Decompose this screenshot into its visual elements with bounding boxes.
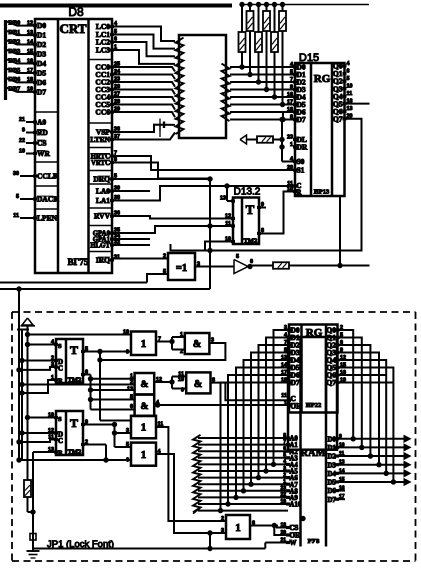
svg-text:5: 5 bbox=[283, 453, 286, 459]
svg-text:T: T bbox=[70, 416, 78, 430]
svg-text:1: 1 bbox=[284, 400, 287, 406]
svg-text:5: 5 bbox=[126, 442, 129, 448]
svg-text:20: 20 bbox=[280, 530, 286, 536]
svg-text:9: 9 bbox=[261, 202, 264, 208]
svg-text:D13.2: D13.2 bbox=[234, 187, 261, 198]
svg-text:5: 5 bbox=[85, 346, 88, 352]
svg-text:10: 10 bbox=[347, 83, 353, 89]
svg-text:2: 2 bbox=[180, 349, 183, 355]
svg-text:2: 2 bbox=[51, 355, 54, 361]
svg-text:W: W bbox=[290, 539, 297, 547]
svg-text:Q7: Q7 bbox=[326, 378, 336, 387]
svg-text:7: 7 bbox=[283, 439, 286, 445]
svg-text:РУ8: РУ8 bbox=[308, 538, 321, 545]
svg-text:12: 12 bbox=[156, 377, 162, 383]
svg-text:17: 17 bbox=[27, 68, 33, 74]
svg-text:ТМ2: ТМ2 bbox=[68, 449, 82, 456]
svg-text:&: & bbox=[141, 380, 149, 390]
svg-text:6: 6 bbox=[252, 520, 255, 526]
svg-text:ТМ2: ТМ2 bbox=[244, 238, 258, 245]
svg-text:R: R bbox=[297, 189, 302, 196]
svg-text:5: 5 bbox=[16, 194, 19, 200]
svg-text:3: 3 bbox=[197, 261, 200, 267]
svg-text:&: & bbox=[193, 339, 201, 350]
svg-text:6: 6 bbox=[250, 259, 253, 265]
svg-text:D3: D3 bbox=[37, 50, 46, 59]
svg-text:11: 11 bbox=[281, 393, 287, 399]
svg-text:D4: D4 bbox=[37, 59, 46, 68]
svg-text:13: 13 bbox=[347, 106, 353, 112]
svg-text:10: 10 bbox=[178, 377, 184, 383]
svg-text:11: 11 bbox=[13, 213, 19, 219]
svg-text:A10: A10 bbox=[290, 502, 302, 509]
svg-text:5: 5 bbox=[130, 394, 133, 400]
svg-text:D8: D8 bbox=[68, 5, 84, 19]
svg-text:3: 3 bbox=[126, 428, 129, 434]
svg-text:23: 23 bbox=[280, 486, 286, 492]
svg-text:D5: D5 bbox=[37, 69, 46, 78]
svg-text:21: 21 bbox=[19, 117, 25, 123]
svg-text:DB5: DB5 bbox=[9, 67, 21, 74]
svg-text:S1: S1 bbox=[297, 166, 305, 175]
svg-text:C: C bbox=[58, 365, 63, 373]
svg-text:9: 9 bbox=[290, 84, 293, 90]
svg-text:9: 9 bbox=[85, 419, 88, 425]
svg-text:1: 1 bbox=[141, 338, 147, 350]
svg-text:6: 6 bbox=[85, 369, 88, 375]
svg-text:C: C bbox=[58, 437, 63, 445]
svg-text:22: 22 bbox=[19, 138, 25, 144]
svg-text:6: 6 bbox=[130, 404, 133, 410]
svg-text:D7: D7 bbox=[291, 378, 300, 387]
svg-text:9: 9 bbox=[126, 350, 129, 356]
svg-text:ИР13: ИР13 bbox=[314, 189, 330, 196]
svg-text:&: & bbox=[141, 402, 149, 412]
svg-text:8: 8 bbox=[290, 114, 293, 120]
svg-text:1: 1 bbox=[51, 375, 54, 381]
svg-text:D1: D1 bbox=[37, 31, 46, 40]
svg-text:12: 12 bbox=[27, 20, 33, 26]
svg-text:9: 9 bbox=[22, 127, 25, 133]
svg-text:D7: D7 bbox=[37, 87, 46, 96]
svg-text:RG: RG bbox=[314, 73, 331, 85]
svg-text:&: & bbox=[194, 379, 202, 390]
svg-text:18: 18 bbox=[287, 107, 293, 113]
svg-text:LTEN: LTEN bbox=[90, 135, 110, 144]
svg-text:2: 2 bbox=[221, 516, 224, 522]
svg-text:D7: D7 bbox=[297, 115, 306, 124]
svg-text:7: 7 bbox=[158, 336, 161, 342]
svg-text:D6: D6 bbox=[37, 78, 46, 87]
svg-text:R: R bbox=[58, 378, 63, 385]
svg-text:HLGT: HLGT bbox=[90, 242, 110, 249]
svg-text:CRT: CRT bbox=[60, 21, 87, 36]
svg-text:3: 3 bbox=[221, 528, 224, 534]
svg-text:5: 5 bbox=[290, 69, 293, 75]
svg-text:30: 30 bbox=[13, 171, 19, 177]
svg-text:DB1: DB1 bbox=[9, 29, 21, 36]
svg-text:VRTC: VRTC bbox=[91, 160, 110, 167]
svg-text:18: 18 bbox=[27, 77, 33, 83]
svg-text:DB3: DB3 bbox=[9, 48, 21, 55]
svg-text:4: 4 bbox=[51, 339, 54, 345]
svg-text:4: 4 bbox=[283, 459, 286, 465]
svg-text:D2: D2 bbox=[37, 40, 46, 49]
svg-text:18: 18 bbox=[280, 522, 286, 528]
svg-text:7: 7 bbox=[290, 77, 293, 83]
svg-text:DB0: DB0 bbox=[9, 19, 21, 26]
svg-text:12: 12 bbox=[48, 428, 54, 434]
svg-text:DB7: DB7 bbox=[9, 86, 21, 93]
svg-text:T: T bbox=[246, 202, 255, 217]
svg-text:14: 14 bbox=[27, 39, 33, 45]
svg-text:LC3: LC3 bbox=[96, 46, 110, 55]
svg-text:A0: A0 bbox=[37, 118, 46, 127]
svg-text:3: 3 bbox=[283, 466, 286, 472]
svg-text:3: 3 bbox=[51, 362, 54, 368]
svg-text:12: 12 bbox=[225, 213, 231, 219]
svg-text:8: 8 bbox=[212, 377, 215, 383]
svg-text:10: 10 bbox=[19, 148, 25, 154]
svg-text:2: 2 bbox=[85, 439, 88, 445]
svg-text:10: 10 bbox=[225, 236, 231, 242]
svg-text:4: 4 bbox=[156, 400, 159, 406]
svg-text:2: 2 bbox=[163, 253, 166, 259]
svg-text:5: 5 bbox=[163, 269, 166, 275]
svg-text:CC6: CC6 bbox=[95, 108, 110, 117]
svg-text:ИР22: ИР22 bbox=[306, 402, 322, 409]
svg-text:LA1: LA1 bbox=[96, 196, 110, 205]
svg-text:DB4: DB4 bbox=[9, 57, 21, 64]
svg-text:1: 1 bbox=[235, 522, 241, 534]
svg-text:16: 16 bbox=[287, 92, 293, 98]
svg-text:19: 19 bbox=[27, 87, 33, 93]
svg-text:S: S bbox=[58, 343, 62, 350]
svg-text:13: 13 bbox=[27, 30, 33, 36]
svg-text:DR: DR bbox=[297, 143, 308, 152]
svg-text:LA0: LA0 bbox=[96, 187, 110, 196]
svg-text:17: 17 bbox=[287, 99, 293, 105]
svg-text:11: 11 bbox=[347, 91, 353, 97]
svg-text:8: 8 bbox=[283, 433, 286, 439]
svg-text:LPEN: LPEN bbox=[37, 214, 58, 223]
svg-text:15: 15 bbox=[27, 49, 33, 55]
svg-text:19: 19 bbox=[280, 499, 286, 505]
svg-text:1: 1 bbox=[180, 332, 183, 338]
svg-text:23: 23 bbox=[287, 134, 293, 140]
svg-text:5: 5 bbox=[236, 254, 239, 260]
svg-text:13: 13 bbox=[127, 387, 133, 393]
svg-text:13: 13 bbox=[48, 447, 54, 453]
svg-text:1: 1 bbox=[141, 449, 147, 461]
svg-text:Q7: Q7 bbox=[333, 114, 343, 123]
svg-text:9: 9 bbox=[181, 387, 184, 393]
svg-text:6: 6 bbox=[283, 446, 286, 452]
svg-text:11: 11 bbox=[225, 221, 231, 227]
svg-text:=1: =1 bbox=[176, 263, 187, 274]
svg-text:2: 2 bbox=[283, 472, 286, 478]
svg-text:RAM: RAM bbox=[300, 448, 325, 459]
svg-text:1: 1 bbox=[283, 479, 286, 485]
svg-text:S: S bbox=[58, 416, 62, 423]
svg-text:DB6: DB6 bbox=[9, 76, 21, 83]
svg-text:DB2: DB2 bbox=[9, 38, 21, 45]
svg-text:10: 10 bbox=[123, 329, 129, 335]
svg-text:5: 5 bbox=[347, 76, 350, 82]
svg-text:1: 1 bbox=[141, 422, 147, 434]
svg-text:13: 13 bbox=[220, 196, 226, 202]
svg-text:R: R bbox=[58, 450, 63, 457]
svg-text:2: 2 bbox=[130, 379, 133, 385]
svg-text:10: 10 bbox=[48, 412, 54, 418]
svg-text:22: 22 bbox=[280, 492, 286, 498]
svg-text:6: 6 bbox=[347, 68, 350, 74]
svg-text:T: T bbox=[70, 343, 78, 357]
svg-text:6: 6 bbox=[126, 457, 129, 463]
svg-text:ТМ2: ТМ2 bbox=[68, 377, 82, 384]
svg-text:11: 11 bbox=[48, 434, 54, 440]
svg-text:3: 3 bbox=[211, 338, 214, 344]
svg-text:16: 16 bbox=[27, 58, 33, 64]
svg-text:4: 4 bbox=[347, 61, 350, 67]
svg-text:4: 4 bbox=[290, 62, 293, 68]
svg-text:CCLK: CCLK bbox=[37, 172, 59, 181]
svg-text:ВГ75: ВГ75 bbox=[68, 257, 89, 267]
svg-text:8: 8 bbox=[261, 228, 264, 234]
svg-text:4: 4 bbox=[290, 156, 293, 162]
svg-text:D0: D0 bbox=[37, 21, 46, 30]
svg-text:1: 1 bbox=[290, 142, 293, 148]
